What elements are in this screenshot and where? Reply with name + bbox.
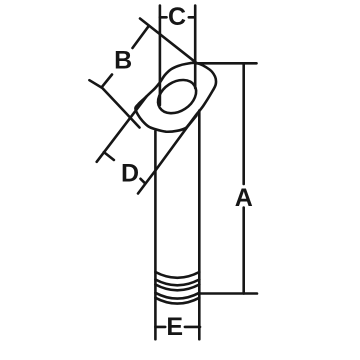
svg-text:D: D bbox=[121, 160, 139, 188]
svg-text:A: A bbox=[235, 184, 253, 212]
svg-text:C: C bbox=[168, 3, 186, 31]
svg-text:E: E bbox=[166, 313, 183, 341]
svg-text:B: B bbox=[114, 47, 132, 75]
